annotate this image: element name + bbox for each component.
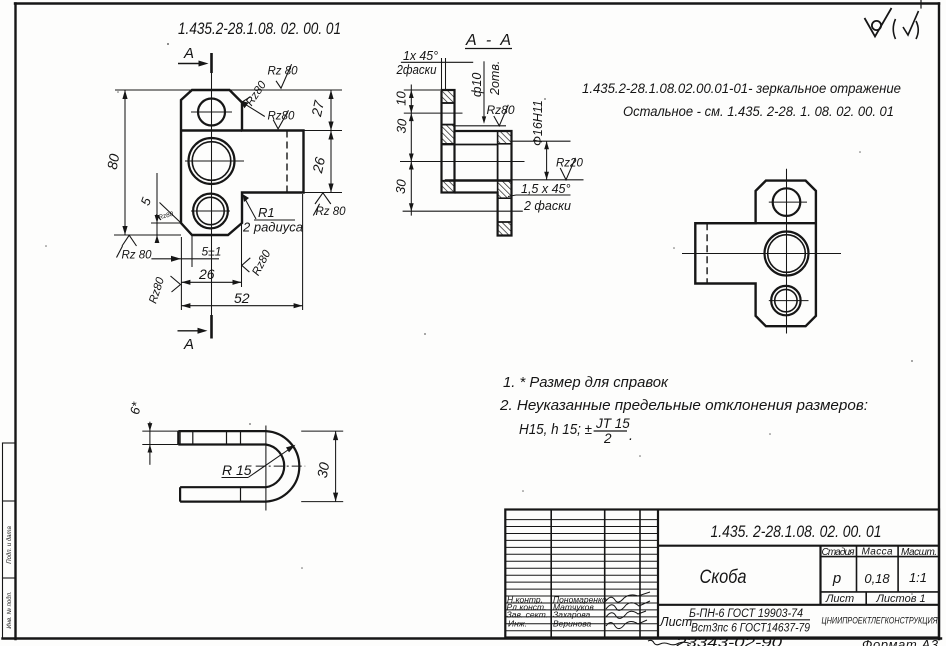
ext x241.5 down	[241, 224, 243, 287]
U-view bottom strip	[180, 487, 266, 501]
dim 30 line right	[335, 431, 337, 502]
leader R1	[244, 197, 256, 219]
Rz80 check right lower	[313, 193, 331, 216]
hole bottom inner	[197, 197, 224, 224]
section cut stroke bottom	[210, 315, 213, 339]
mirror hole bottom inner	[775, 289, 797, 311]
hole top	[198, 99, 225, 126]
hidden line (dashed) in right tab	[286, 131, 288, 193]
ext line top y90	[115, 89, 342, 91]
Rz80 check chamfer leader	[242, 97, 265, 117]
ext y179.8 long	[445, 179, 584, 181]
svg-text:р: р	[832, 570, 841, 587]
mirror step edge	[695, 222, 816, 224]
svg-text:30: 30	[393, 178, 409, 194]
format tick top	[920, 0, 922, 8]
svg-text:Лист: Лист	[825, 593, 854, 605]
svg-text:Rz80: Rz80	[158, 211, 175, 222]
dim 5 vertical line	[156, 173, 158, 241]
svg-text:2отв.: 2отв.	[488, 61, 502, 96]
1,5x45 underline	[516, 194, 571, 196]
mirror vertical centerline	[786, 169, 788, 334]
svg-text:23343-02-90: 23343-02-90	[675, 635, 783, 646]
hole bottom outer	[193, 194, 228, 229]
centerline bottom hole	[191, 210, 230, 212]
U-view inner arc	[266, 445, 284, 488]
Rz20 check	[560, 158, 575, 180]
svg-text:Rz 80: Rz 80	[316, 206, 347, 218]
ext step right y130.5	[304, 130, 343, 132]
centerline top hole	[191, 111, 232, 113]
svg-text:Rz80: Rz80	[250, 248, 273, 278]
title block outer	[505, 510, 939, 638]
svg-text:2фаски: 2фаски	[396, 63, 437, 77]
svg-text:80: 80	[104, 152, 122, 170]
U-view ext top line	[142, 430, 178, 432]
svg-text:30: 30	[393, 117, 409, 133]
svg-text:Веринова: Веринова	[553, 619, 592, 629]
R15 underline	[222, 477, 249, 479]
svg-text:Б-ПН-6 ГОСТ 19903-74: Б-ПН-6 ГОСТ 19903-74	[689, 608, 803, 620]
section arrow bottom	[178, 330, 205, 332]
plate outline	[442, 90, 455, 193]
vertical centerline	[211, 72, 213, 318]
svg-text:Инв. № подл.: Инв. № подл.	[6, 591, 13, 628]
svg-text:ЦНИИПРОЕКТЛЕГКОНСТРУКЦИЯ: ЦНИИПРОЕКТЛЕГКОНСТРУКЦИЯ	[822, 616, 938, 626]
svg-text:Стадия: Стадия	[822, 547, 856, 558]
svg-text:Rz 80: Rz 80	[122, 250, 153, 262]
svg-text:0,18: 0,18	[864, 571, 890, 586]
mirror hole bottom outer	[771, 286, 800, 315]
svg-text:1.435. 2-28.1.08. 02. 00. 01: 1.435. 2-28.1.08. 02. 00. 01	[711, 522, 882, 541]
bend tick lines top strip	[179, 431, 181, 444]
svg-text:6*: 6*	[127, 400, 144, 416]
bend tick bottom strip	[240, 487, 242, 501]
ext y141.2 right	[512, 140, 571, 142]
Rz80 check on step	[273, 110, 288, 129]
Rz80 check bottom left	[117, 235, 137, 257]
hole middle outer	[189, 138, 235, 184]
centerline hole y113	[404, 112, 463, 114]
svg-text:Rz80: Rz80	[487, 103, 515, 117]
big cell lines	[658, 545, 939, 547]
ext x192 down	[191, 236, 193, 267]
svg-text:Остальное - см. 1.435. 2-28.: Остальное - см. 1.435. 2-28. 1. 08. 02. …	[623, 103, 894, 119]
svg-text:Ф16Н11: Ф16Н11	[531, 100, 545, 146]
chamfer ext verticals	[441, 58, 443, 89]
svg-text:Rz80: Rz80	[147, 275, 167, 305]
mirror hole middle inner	[768, 235, 806, 273]
svg-text:10: 10	[394, 91, 409, 106]
Rz80 check top	[276, 64, 292, 88]
svg-text:1x 45°: 1x 45°	[403, 49, 438, 63]
svg-text:26: 26	[198, 266, 215, 282]
U-view ext second line	[142, 444, 178, 446]
svg-text:1.435.2-28.1.08. 02. 00. 01: 1.435.2-28.1.08. 02. 00. 01	[178, 20, 341, 38]
svg-text:Подп. и дата: Подп. и дата	[7, 526, 13, 564]
svg-text:Лист: Лист	[659, 615, 692, 629]
svg-text:Rz20: Rz20	[556, 158, 583, 170]
svg-text:А - А: А - А	[465, 32, 511, 49]
section cut stroke top	[210, 53, 213, 73]
svg-text:Вст3пс 6 ГОСТ14637-79: Вст3пс 6 ГОСТ14637-79	[691, 623, 811, 635]
left table horizontals	[505, 520, 658, 631]
svg-text:30: 30	[314, 461, 332, 479]
left table verticals	[550, 510, 552, 638]
centerline boss y161.5	[400, 161, 525, 163]
U-view top strip	[178, 431, 266, 444]
U horizontal centerline	[256, 465, 306, 467]
ext y125.8	[455, 125, 507, 127]
mirror centerline bottom hole	[769, 300, 809, 302]
svg-text:R 15: R 15	[222, 462, 252, 478]
bottom margin texts (cut off)	[648, 635, 939, 646]
U-view ext bottom line	[301, 501, 343, 503]
ext top y90	[404, 89, 440, 91]
lower boss inner lines	[498, 197, 512, 199]
dim 26 right line	[330, 131, 332, 193]
svg-text:.: .	[629, 428, 633, 444]
svg-text:Rz80: Rz80	[244, 79, 269, 108]
ext y211 long bottom	[403, 210, 523, 212]
mirror centerline top hole	[769, 201, 807, 203]
boss outline	[455, 131, 512, 236]
ext line bottom y235 left	[114, 234, 181, 236]
svg-text:2 радиуса: 2 радиуса	[242, 220, 303, 235]
svg-text:Листов 1: Листов 1	[875, 593, 925, 605]
hatch boss bottom right block	[498, 181, 512, 198]
svg-text:R1: R1	[258, 205, 275, 220]
svg-text:Формат А3: Формат А3	[862, 637, 939, 646]
svg-text:А: А	[183, 336, 194, 353]
dim 27 line	[330, 90, 332, 131]
plate hole edge lines	[442, 102, 455, 104]
bore lines	[442, 144, 498, 146]
hole middle inner	[192, 142, 231, 181]
dim 52 line	[181, 305, 302, 307]
section arrow top	[178, 63, 205, 65]
svg-text:Rz 80: Rz 80	[268, 66, 299, 78]
Rz80 check	[494, 105, 509, 126]
mirror hole top	[773, 188, 801, 216]
dim 26 bottom line	[181, 281, 241, 283]
Rz80 check rotated right notch	[242, 258, 251, 272]
centerline middle hole	[185, 160, 244, 162]
Rz80 check rotated near 26 dim	[171, 276, 181, 292]
svg-text:2. Неуказанные предельные: 2. Неуказанные предельные отклонения раз…	[499, 398, 868, 414]
dim 6* line	[149, 422, 151, 465]
ext x302.6 down	[302, 194, 304, 310]
hatch boss top right block	[498, 131, 512, 144]
mirror part outline	[695, 181, 816, 327]
front view part outline	[181, 90, 304, 235]
svg-text:Скоба: Скоба	[700, 567, 747, 588]
left dim line	[410, 85, 412, 216]
U-view outer arc	[266, 431, 299, 502]
svg-text:1:1: 1:1	[909, 570, 927, 585]
svg-text:2 фаски: 2 фаски	[523, 199, 571, 213]
svg-text:Масса: Масса	[862, 547, 893, 558]
U vertical centerline	[265, 426, 267, 511]
svg-text:1,5 x 45°: 1,5 x 45°	[521, 182, 570, 196]
svg-text:2: 2	[603, 431, 612, 446]
svg-text:А: А	[183, 45, 194, 62]
svg-text:5: 5	[137, 195, 154, 208]
mirror horizontal centerline long	[682, 253, 841, 255]
svg-text:52: 52	[234, 290, 250, 306]
svg-text:Масшт.: Масшт.	[901, 547, 937, 558]
1x45 shelf	[401, 61, 473, 63]
svg-text:5±1: 5±1	[202, 245, 222, 259]
f16H11 dim vertical	[546, 141, 548, 180]
svg-text:ф10: ф10	[470, 73, 484, 97]
general surface mark check with circle	[865, 8, 892, 37]
R15 leader	[248, 447, 293, 478]
svg-text:1. * Размер для справок: 1. * Размер для справок	[503, 375, 669, 391]
left filing margin strip	[3, 443, 16, 639]
svg-text:Rz80: Rz80	[268, 111, 295, 123]
dim 80 line	[124, 90, 126, 235]
hatch plate mid block	[442, 125, 455, 144]
f10 leader vertical	[483, 61, 485, 121]
front view step edge line	[181, 129, 242, 131]
hatch plate bottom block	[442, 181, 455, 193]
ext x181.4 down	[180, 237, 182, 310]
dim 5+-1 arrow line	[151, 258, 219, 260]
svg-text:Инж.: Инж.	[508, 619, 527, 629]
ext tab bottom right y192.5	[304, 192, 343, 194]
svg-text:1.435.2-28.1.08.02.00.01-01- з: 1.435.2-28.1.08.02.00.01-01- зеркальное …	[582, 80, 901, 96]
Rz80 small leader near 5	[156, 203, 181, 224]
mirror hole middle outer	[765, 232, 809, 276]
svg-text:27: 27	[308, 98, 327, 119]
svg-text:Н15, h 15; ±: Н15, h 15; ±	[519, 422, 592, 438]
ext chamfer y223 left	[151, 222, 181, 224]
hatch lower boss bottom block	[498, 222, 512, 236]
scan speckles	[45, 43, 913, 595]
mirror hidden dashed line	[706, 223, 708, 283]
svg-text:JT 15: JT 15	[595, 416, 630, 431]
svg-text:26: 26	[309, 155, 328, 175]
hatch plate top block	[442, 90, 455, 103]
parenthesis check mark	[893, 11, 918, 39]
signatures squiggles	[606, 592, 650, 629]
